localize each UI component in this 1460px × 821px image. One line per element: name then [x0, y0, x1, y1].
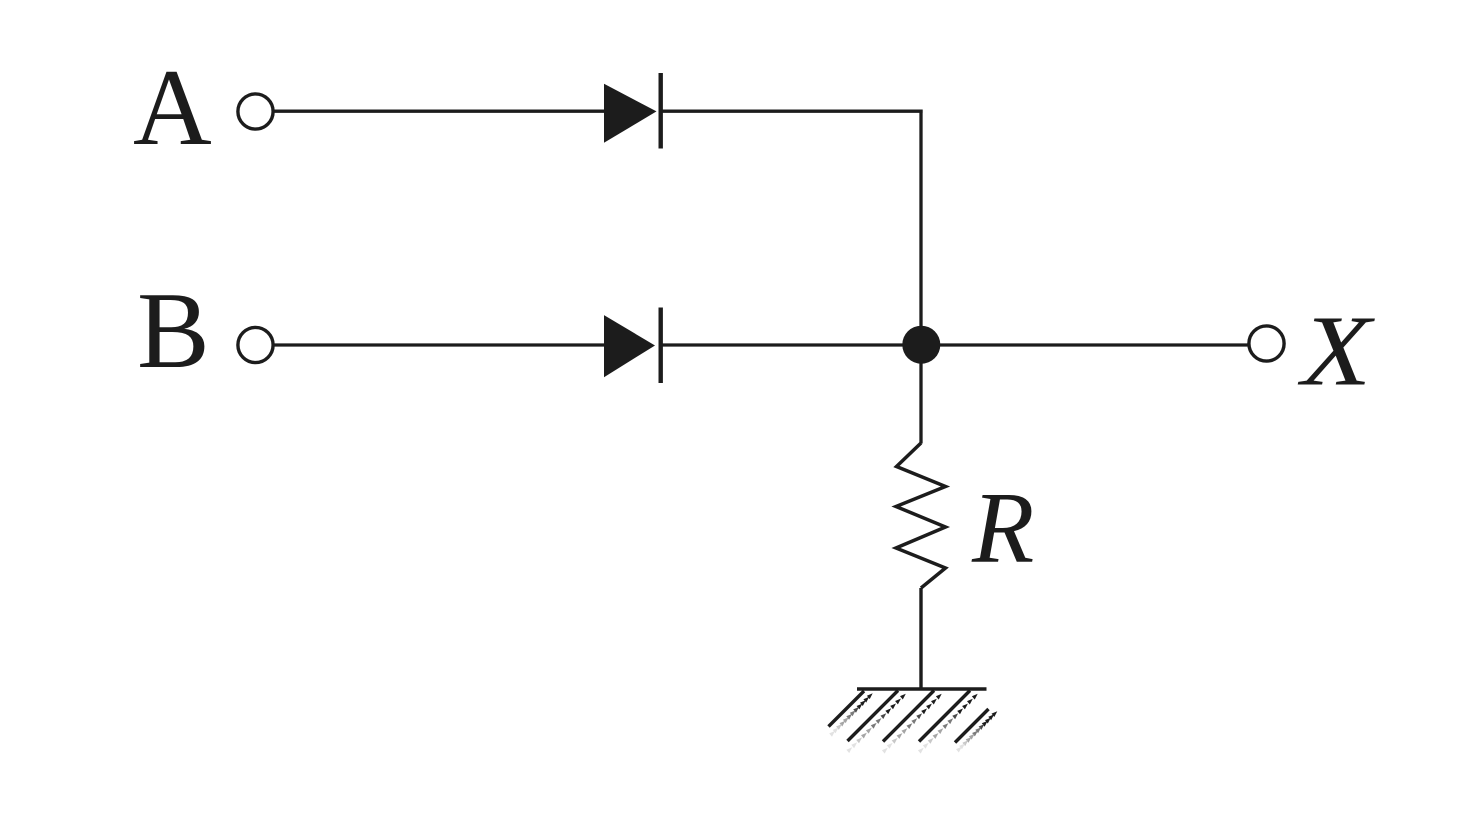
wire terminal A to diode D1 [274, 110, 606, 113]
wire junction to resistor R [919, 345, 922, 444]
wire junction to output terminal X [921, 343, 1248, 346]
diode D1 [604, 73, 661, 149]
input terminal A [238, 94, 273, 129]
wire corner down to junction [919, 110, 922, 345]
ground [829, 689, 998, 754]
svg-text:R: R [971, 472, 1034, 585]
wire diode D2 to junction [661, 343, 921, 346]
resistor R [896, 443, 946, 588]
junction node dot [902, 326, 940, 364]
wire resistor to ground [919, 588, 922, 689]
input terminal B [238, 327, 273, 362]
output terminal X [1249, 326, 1284, 361]
svg-text:B: B [137, 270, 210, 391]
wire terminal B to diode D2 [274, 343, 606, 346]
svg-text:X: X [1297, 295, 1375, 407]
svg-text:A: A [133, 47, 212, 168]
wire diode D1 to corner [661, 110, 923, 113]
diode D2 [604, 308, 661, 384]
